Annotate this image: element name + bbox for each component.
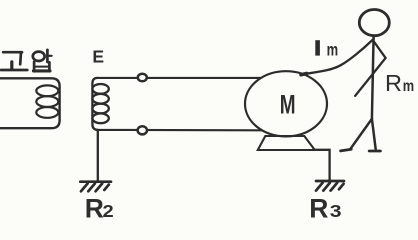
person: hand on motor xyxy=(301,74,307,75)
svg-text:E: E xyxy=(92,47,104,67)
svg-text:m: m xyxy=(327,41,339,60)
svg-text:R: R xyxy=(85,194,104,224)
svg-text:M: M xyxy=(280,90,296,120)
terminal node on bottom wire xyxy=(138,126,147,134)
svg-text:R: R xyxy=(309,194,328,224)
motor base (pedestal) xyxy=(258,136,315,150)
svg-text:R: R xyxy=(385,70,402,96)
motor M1 body xyxy=(245,71,327,136)
person: head xyxy=(359,10,389,36)
wire: motor frame to ground R3 xyxy=(313,150,330,180)
terminal node on top wire xyxy=(138,74,147,82)
person: arm reaching motor (current path) xyxy=(304,40,374,75)
ground R3 symbol xyxy=(316,181,344,191)
wire: ground tap to R2 xyxy=(97,130,99,180)
svg-text:2: 2 xyxy=(103,202,114,222)
person: left foot xyxy=(341,149,352,151)
svg-text:m: m xyxy=(403,78,414,96)
label Im xyxy=(315,43,320,54)
person: left leg xyxy=(350,119,372,149)
person: body xyxy=(372,36,374,119)
person: right leg xyxy=(372,119,376,150)
ground R2 symbol xyxy=(80,182,111,192)
person: bent arm xyxy=(355,42,385,96)
transformer T1 coil (3 loops) xyxy=(36,85,58,117)
inductor E coil (4 loops with left stem) xyxy=(92,78,98,130)
label 고압 (high voltage) xyxy=(1,50,52,72)
transformer T1 high-voltage winding box xyxy=(0,78,60,128)
svg-text:3: 3 xyxy=(330,201,342,221)
wire: bottom conductor from E coil to motor xyxy=(98,129,263,132)
person: right foot xyxy=(369,150,380,153)
wire: top conductor from E coil to motor xyxy=(98,77,263,79)
